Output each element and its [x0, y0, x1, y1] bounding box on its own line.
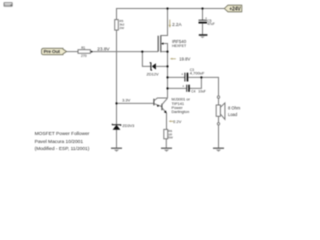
svg-text:ZD12V: ZD12V — [147, 71, 160, 76]
svg-text:(Modified - ESP, 11/2001): (Modified - ESP, 11/2001) — [35, 146, 90, 152]
svg-text:HEXFET: HEXFET — [172, 44, 187, 48]
svg-text:IRF540: IRF540 — [172, 39, 187, 44]
svg-text:5W: 5W — [168, 135, 173, 139]
svg-text:+24V: +24V — [229, 6, 241, 12]
svg-text:R1: R1 — [81, 46, 85, 50]
svg-text:ZD3V3: ZD3V3 — [122, 124, 134, 128]
svg-text:19.8V: 19.8V — [179, 56, 190, 61]
svg-text:Load: Load — [228, 112, 238, 117]
svg-text:4,700uF: 4,700uF — [190, 71, 205, 76]
svg-text:Pre Out: Pre Out — [44, 49, 61, 54]
svg-text:8 Ohm: 8 Ohm — [228, 106, 241, 111]
svg-text:2.2V: 2.2V — [173, 119, 181, 124]
svg-text:3.3V: 3.3V — [122, 97, 131, 102]
svg-text:Pavel Macura 10/2001: Pavel Macura 10/2001 — [35, 139, 84, 145]
svg-text:C4: C4 — [191, 90, 195, 94]
svg-text:MOSFET Power Follower: MOSFET Power Follower — [35, 131, 90, 137]
svg-text:2W: 2W — [119, 26, 124, 30]
svg-text:+: + — [182, 84, 184, 88]
svg-text:Darlington: Darlington — [172, 109, 190, 114]
svg-text:10uF: 10uF — [198, 90, 206, 94]
svg-text:23.8V: 23.8V — [97, 46, 110, 51]
svg-text:47uF: 47uF — [207, 22, 215, 26]
svg-text:270: 270 — [81, 54, 87, 58]
svg-text:2.2A: 2.2A — [172, 22, 182, 27]
svg-text:+: + — [181, 73, 183, 77]
